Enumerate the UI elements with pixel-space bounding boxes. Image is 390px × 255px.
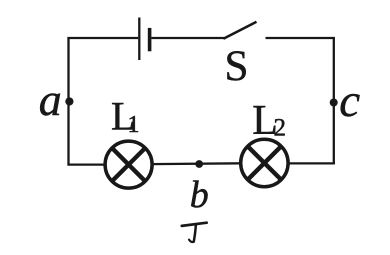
wire left vertical (a branch) — [67, 38, 69, 165]
lamp L2 circle — [241, 139, 288, 186]
node b junction dot — [195, 160, 203, 168]
svg-text:b: b — [190, 174, 209, 216]
switch S blade (open) — [223, 22, 256, 39]
wire bottom-left to lamp L1 — [67, 163, 105, 165]
svg-text:a: a — [39, 74, 62, 125]
battery B1 short plate (negative) — [148, 28, 152, 51]
svg-text:c: c — [339, 75, 360, 127]
svg-text:1: 1 — [128, 112, 140, 138]
node a junction dot — [65, 97, 73, 105]
wire switch contact to top-right corner — [266, 38, 334, 39]
figure label 丁 (drawn glyph) — [182, 223, 207, 242]
wire lamp L2 to bottom-right corner — [288, 162, 334, 163]
lamp L1 cross — [112, 148, 145, 181]
wire lamp L1 to lamp L2 (through node b) — [152, 162, 242, 165]
lamp L2 cross — [248, 146, 281, 179]
lamp L1 circle — [105, 141, 152, 188]
wire right vertical (c branch) — [333, 38, 335, 164]
wire top-left (a corner to battery) — [69, 38, 139, 39]
wire battery to switch pivot — [151, 37, 224, 39]
battery B1 long plate (positive) — [138, 18, 140, 61]
svg-text:S: S — [225, 43, 249, 90]
svg-text:2: 2 — [274, 115, 287, 142]
node c junction dot — [330, 99, 338, 107]
